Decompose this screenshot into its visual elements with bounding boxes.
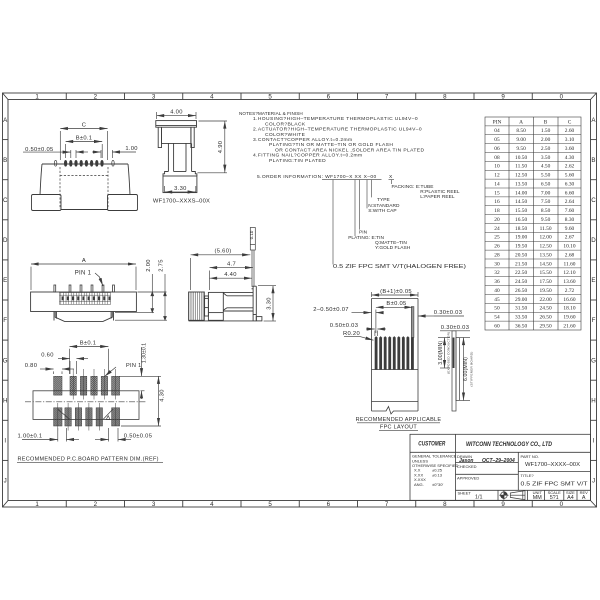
svg-text:C: C — [3, 197, 8, 204]
svg-text:19.00: 19.00 — [515, 235, 527, 241]
svg-text:10: 10 — [494, 164, 500, 170]
svg-text:6.00(MIN): 6.00(MIN) — [463, 357, 469, 381]
svg-text:PIN 1: PIN 1 — [75, 271, 92, 277]
view3 connector top view — [31, 292, 137, 312]
svg-text:8.30: 8.30 — [565, 217, 575, 223]
svg-text:54: 54 — [494, 315, 500, 321]
svg-text:B: B — [544, 119, 548, 125]
svg-text:G: G — [591, 357, 596, 364]
svg-text:E: E — [3, 277, 7, 284]
svg-text:26.50: 26.50 — [515, 288, 527, 294]
svg-text:15.50: 15.50 — [515, 208, 527, 214]
svg-text:PLATING: E:TIN: PLATING: E:TIN — [348, 235, 384, 241]
svg-text:J: J — [4, 478, 7, 485]
svg-text:3.CONTACT?COPPER ALLOY.t=0.2mm: 3.CONTACT?COPPER ALLOY.t=0.2mm — [253, 137, 352, 143]
svg-text:4: 4 — [210, 501, 214, 508]
view1 pin ovals — [54, 160, 114, 166]
svg-text:12.50: 12.50 — [540, 244, 552, 250]
svg-text:1: 1 — [35, 93, 39, 100]
svg-text:18.10: 18.10 — [563, 306, 575, 312]
svg-text:18: 18 — [494, 208, 500, 214]
svg-text:4.FITTING NAIL?COPPER ALLOY.t=: 4.FITTING NAIL?COPPER ALLOY.t=0.2mm — [253, 153, 362, 159]
svg-text:(STIFFENER BOARD): (STIFFENER BOARD) — [470, 351, 474, 386]
svg-text:4.00: 4.00 — [170, 110, 182, 116]
svg-text:A4: A4 — [567, 495, 574, 501]
svg-text:12.10: 12.10 — [563, 270, 575, 276]
svg-text:0: 0 — [560, 501, 564, 508]
svg-text:19.50: 19.50 — [540, 288, 552, 294]
svg-text:RECOMMENDED APPLICABLE: RECOMMENDED APPLICABLE — [356, 417, 442, 423]
svg-text:5.50: 5.50 — [541, 173, 551, 179]
svg-text:3: 3 — [152, 501, 156, 508]
sheet frame — [3, 93, 597, 507]
svg-text:B: B — [3, 157, 7, 164]
svg-text:3.00(MIN): 3.00(MIN) — [438, 341, 444, 365]
svg-text:H: H — [591, 397, 595, 404]
svg-text:19.60: 19.60 — [563, 315, 575, 321]
svg-text:40: 40 — [494, 288, 500, 294]
svg-text:12.50: 12.50 — [515, 173, 527, 179]
svg-text:06: 06 — [494, 146, 500, 152]
view6 dimensions — [344, 292, 464, 340]
svg-text:COLOR?BLACK: COLOR?BLACK — [265, 121, 306, 127]
svg-text:X: X — [389, 174, 393, 180]
svg-text:F: F — [3, 317, 7, 324]
svg-text:2.72: 2.72 — [565, 288, 575, 294]
svg-text:11.50: 11.50 — [515, 164, 527, 170]
svg-text:0.50±0.05: 0.50±0.05 — [25, 147, 53, 153]
svg-text:RECOMMENDED P.C.BOARD PATTER: RECOMMENDED P.C.BOARD PATTERN DIM.(REF) — [18, 457, 159, 463]
svg-text:22.50: 22.50 — [515, 270, 527, 276]
svg-text:4.50: 4.50 — [541, 164, 551, 170]
svg-text:0.50±0.05: 0.50±0.05 — [124, 434, 152, 440]
svg-text:PLATING:TIN PLATED: PLATING:TIN PLATED — [269, 158, 326, 164]
svg-text:25: 25 — [494, 235, 500, 241]
svg-text:1.HOUSING?HIGH–TEMPERATURE THE: 1.HOUSING?HIGH–TEMPERATURE THERMOPLASTIC… — [253, 116, 418, 122]
view2 dimensions — [157, 112, 227, 193]
view7 dimensions — [438, 331, 470, 401]
svg-text:4: 4 — [210, 93, 214, 100]
svg-text:F: F — [592, 317, 596, 324]
svg-text:24.50: 24.50 — [515, 279, 527, 285]
svg-text:2.62: 2.62 — [565, 164, 575, 170]
view4 dimensions — [191, 255, 276, 321]
pin count table — [485, 117, 581, 330]
svg-text:21.60: 21.60 — [563, 323, 575, 329]
svg-text:7.60: 7.60 — [565, 208, 575, 214]
svg-text:S:WITH CAP: S:WITH CAP — [368, 208, 396, 214]
svg-text:4.30: 4.30 — [159, 389, 165, 401]
svg-text:10.10: 10.10 — [563, 244, 575, 250]
svg-text:08: 08 — [494, 155, 500, 161]
svg-text:CUSTOMER: CUSTOMER — [418, 442, 446, 448]
svg-text:L:PAPER REEL: L:PAPER REEL — [420, 194, 455, 200]
svg-text:C: C — [82, 123, 87, 129]
svg-text:2.00: 2.00 — [541, 137, 551, 143]
svg-text:9.60: 9.60 — [565, 226, 575, 232]
svg-text:7: 7 — [385, 501, 389, 508]
svg-text:3.30: 3.30 — [174, 186, 186, 192]
svg-text:0.60: 0.60 — [41, 352, 53, 358]
svg-text:4.40: 4.40 — [224, 272, 236, 278]
svg-text:2.67: 2.67 — [565, 235, 575, 241]
svg-text:TITLE?: TITLE? — [521, 473, 535, 478]
svg-text:5.ORDER INFORMATION: WF1700–X: 5.ORDER INFORMATION: WF1700–X XX X–00 — [257, 174, 377, 180]
svg-text:12: 12 — [494, 173, 500, 179]
svg-text:CHECKED: CHECKED — [457, 464, 477, 469]
svg-text:31.50: 31.50 — [515, 306, 527, 312]
svg-text:17.50: 17.50 — [540, 279, 552, 285]
svg-text:19.50: 19.50 — [515, 244, 527, 250]
svg-text:WF1700–XXXX–00X: WF1700–XXXX–00X — [525, 462, 580, 468]
svg-text:2–0.50±0.07: 2–0.50±0.07 — [313, 307, 349, 313]
svg-text:3: 3 — [152, 93, 156, 100]
svg-text:15.50: 15.50 — [540, 270, 552, 276]
svg-text:1: 1 — [35, 501, 39, 508]
svg-text:0.30±0.03: 0.30±0.03 — [441, 325, 469, 331]
svg-text:45: 45 — [494, 297, 500, 303]
svg-text:H: H — [3, 397, 7, 404]
svg-text:8: 8 — [443, 93, 447, 100]
svg-text:04: 04 — [494, 128, 500, 134]
svg-text:WITCONN TECHNOLOGY CO., LTD: WITCONN TECHNOLOGY CO., LTD — [466, 441, 552, 448]
svg-text:PLATING?TIN OR MATTE–TIN OR GO: PLATING?TIN OR MATTE–TIN OR GOLD FLASH — [269, 142, 393, 148]
svg-text:(B+1)±0.05: (B+1)±0.05 — [380, 289, 412, 295]
svg-text:Q:MATTE–TIN: Q:MATTE–TIN — [375, 240, 407, 246]
svg-text:J: J — [592, 478, 595, 485]
svg-text:6.60: 6.60 — [565, 190, 575, 196]
svg-text:12.00: 12.00 — [540, 235, 552, 241]
svg-text:D: D — [591, 237, 596, 244]
svg-text:5?1: 5?1 — [550, 495, 559, 501]
svg-text:15: 15 — [494, 190, 500, 196]
svg-text:7.50: 7.50 — [541, 199, 551, 205]
svg-text:OCT–29–2004: OCT–29–2004 — [482, 458, 515, 464]
svg-text:33.50: 33.50 — [515, 315, 527, 321]
svg-text:4.30: 4.30 — [565, 155, 575, 161]
svg-text:8: 8 — [443, 501, 447, 508]
view2 cross-section — [156, 121, 197, 193]
view5 pcb pattern — [54, 376, 62, 395]
svg-text:4.90: 4.90 — [218, 141, 224, 153]
view6 fpc layout — [372, 299, 419, 415]
view1 connector front view — [32, 164, 138, 211]
svg-text:1/1: 1/1 — [475, 495, 483, 501]
svg-text:36: 36 — [494, 279, 500, 285]
svg-text:E: E — [591, 277, 595, 284]
svg-text:60: 60 — [494, 323, 500, 329]
svg-text:B±0.05: B±0.05 — [386, 301, 406, 307]
svg-text:WF1700–XXXS–00X: WF1700–XXXS–00X — [153, 199, 210, 205]
svg-text:14.50: 14.50 — [515, 199, 527, 205]
svg-text:COLOR?WHITE: COLOR?WHITE — [265, 132, 306, 138]
svg-text:29.00: 29.00 — [515, 297, 527, 303]
svg-text:28: 28 — [494, 252, 500, 258]
svg-text:6.30: 6.30 — [565, 181, 575, 187]
svg-text:C: C — [568, 119, 572, 125]
svg-text:24.50: 24.50 — [540, 306, 552, 312]
svg-text:3.50: 3.50 — [541, 155, 551, 161]
svg-text:MM: MM — [533, 495, 542, 501]
svg-text:N:STANDARD: N:STANDARD — [368, 203, 400, 209]
svg-text:05: 05 — [494, 137, 500, 143]
svg-text:B±0.1: B±0.1 — [76, 136, 93, 142]
svg-text:0.5 ZIF FPC SMT V/T: 0.5 ZIF FPC SMT V/T — [521, 482, 589, 488]
svg-text:1.30±0.1: 1.30±0.1 — [141, 343, 147, 363]
svg-text:5.60: 5.60 — [565, 173, 575, 179]
view3 dimensions — [31, 264, 167, 320]
svg-text:0.5 ZIF FPC SMT V/T(HALOGEN FR: 0.5 ZIF FPC SMT V/T(HALOGEN FREE) — [333, 264, 466, 270]
svg-text:6: 6 — [327, 501, 331, 508]
view7 fpc side section — [452, 331, 460, 411]
svg-text:R:PLASTIC REEL: R:PLASTIC REEL — [420, 189, 460, 195]
svg-text:9.00: 9.00 — [516, 137, 526, 143]
svg-text:14.50: 14.50 — [540, 261, 552, 267]
view4 side view — [250, 228, 255, 286]
svg-text:PIN: PIN — [359, 230, 368, 236]
frame zone labels — [3, 93, 597, 507]
svg-text:14.00: 14.00 — [515, 190, 527, 196]
svg-text:26.50: 26.50 — [540, 315, 552, 321]
svg-text:TYPE: TYPE — [377, 197, 390, 203]
svg-text:3.10: 3.10 — [565, 137, 575, 143]
svg-text:FPC LAYOUT: FPC LAYOUT — [380, 424, 417, 430]
svg-text:0.10: 0.10 — [249, 230, 254, 239]
svg-text:1.00: 1.00 — [125, 146, 137, 152]
svg-text:PIN 1: PIN 1 — [126, 363, 142, 369]
projection symbol — [499, 491, 525, 500]
svg-text:24: 24 — [494, 226, 500, 232]
svg-text:36.50: 36.50 — [515, 323, 527, 329]
svg-text:5: 5 — [268, 501, 272, 508]
svg-text:6: 6 — [327, 93, 331, 100]
svg-text:29.50: 29.50 — [540, 323, 552, 329]
svg-text:3.60: 3.60 — [565, 146, 575, 152]
svg-text:11.60: 11.60 — [564, 261, 576, 267]
svg-text:32: 32 — [494, 270, 500, 276]
svg-text:A: A — [582, 495, 586, 501]
svg-text:SHEET: SHEET — [458, 490, 472, 495]
svg-text:22.00: 22.00 — [540, 297, 552, 303]
svg-text:7: 7 — [385, 93, 389, 100]
svg-text:±0°30′: ±0°30′ — [432, 482, 443, 487]
svg-text:2: 2 — [94, 93, 98, 100]
svg-text:18.50: 18.50 — [515, 226, 527, 232]
svg-text:2.68: 2.68 — [565, 252, 575, 258]
svg-text:Y:GOLD FLASH: Y:GOLD FLASH — [375, 245, 411, 251]
svg-text:I: I — [4, 438, 6, 445]
svg-text:1.00±0.1: 1.00±0.1 — [18, 434, 43, 440]
svg-text:13.50: 13.50 — [540, 252, 552, 258]
svg-text:0.30±0.03: 0.30±0.03 — [434, 310, 462, 316]
svg-text:26: 26 — [494, 244, 500, 250]
svg-text:30: 30 — [494, 261, 500, 267]
svg-text:2.64: 2.64 — [565, 199, 575, 205]
title block text — [412, 441, 588, 501]
svg-text:D: D — [3, 237, 8, 244]
svg-text:ANG.: ANG. — [414, 482, 424, 487]
view5 dimensions — [22, 347, 161, 442]
svg-text:8.50: 8.50 — [541, 208, 551, 214]
svg-text:G: G — [3, 357, 8, 364]
svg-text:21.50: 21.50 — [515, 261, 527, 267]
svg-text:PART NO.: PART NO. — [521, 454, 539, 459]
svg-text:0.80: 0.80 — [25, 363, 37, 369]
svg-text:B±0.1: B±0.1 — [80, 340, 97, 346]
svg-text:4.7: 4.7 — [227, 261, 236, 267]
svg-text:1.50: 1.50 — [541, 128, 551, 134]
svg-text:9: 9 — [501, 93, 505, 100]
svg-text:13.60: 13.60 — [563, 279, 575, 285]
svg-text:14: 14 — [494, 181, 500, 187]
svg-text:2: 2 — [94, 501, 98, 508]
order info leader lines — [322, 180, 394, 265]
svg-text:C: C — [591, 197, 596, 204]
svg-text:2.75: 2.75 — [159, 259, 165, 271]
svg-text:50: 50 — [494, 306, 500, 312]
svg-text:A: A — [519, 119, 523, 125]
svg-text:7.00: 7.00 — [541, 190, 551, 196]
svg-text:8.50: 8.50 — [516, 128, 526, 134]
svg-text:16: 16 — [494, 199, 500, 205]
svg-text:2.60: 2.60 — [565, 128, 575, 134]
svg-text:16.60: 16.60 — [563, 297, 575, 303]
svg-text:13.50: 13.50 — [515, 181, 527, 187]
svg-text:6.50: 6.50 — [541, 181, 551, 187]
svg-text:R0.20: R0.20 — [343, 331, 360, 337]
svg-text:9: 9 — [501, 501, 505, 508]
svg-text:OR CONTACT AREA NICKEL ,SOLDER: OR CONTACT AREA NICKEL ,SOLDER AREA TIN … — [275, 147, 424, 153]
svg-text:APPROVED: APPROVED — [457, 475, 479, 480]
svg-text:B: B — [591, 157, 595, 164]
svg-text:9.50: 9.50 — [516, 146, 526, 152]
svg-text:±0.13: ±0.13 — [432, 472, 443, 477]
svg-text:NOTES?MATERIAL & FINISH: NOTES?MATERIAL & FINISH — [239, 111, 303, 116]
svg-text:2.50: 2.50 — [541, 146, 551, 152]
svg-text:A: A — [82, 258, 86, 264]
svg-text:9.50: 9.50 — [541, 217, 551, 223]
svg-text:PIN: PIN — [493, 119, 502, 125]
view1 dimensions — [23, 129, 136, 161]
svg-text:20: 20 — [494, 217, 500, 223]
svg-text:10.50: 10.50 — [515, 155, 527, 161]
svg-text:I: I — [593, 438, 595, 445]
notes text — [239, 111, 424, 180]
svg-text:(5.60): (5.60) — [215, 248, 232, 254]
svg-text:20.50: 20.50 — [515, 252, 527, 258]
svg-text:5: 5 — [268, 93, 272, 100]
svg-text:0.50±0.03: 0.50±0.03 — [330, 323, 358, 329]
svg-text:0: 0 — [560, 93, 564, 100]
svg-text:2.ACTUATOR?HIGH–TEMPERATURE TH: 2.ACTUATOR?HIGH–TEMPERATURE THERMOPLASTI… — [253, 127, 422, 133]
title block — [410, 434, 591, 500]
svg-text:11.50: 11.50 — [540, 226, 552, 232]
svg-text:2.00: 2.00 — [146, 259, 152, 271]
svg-text:3.30: 3.30 — [267, 297, 273, 309]
svg-text:16.50: 16.50 — [515, 217, 527, 223]
svg-text:(EXPOSED CONDUCTOR): (EXPOSED CONDUCTOR) — [446, 332, 450, 374]
